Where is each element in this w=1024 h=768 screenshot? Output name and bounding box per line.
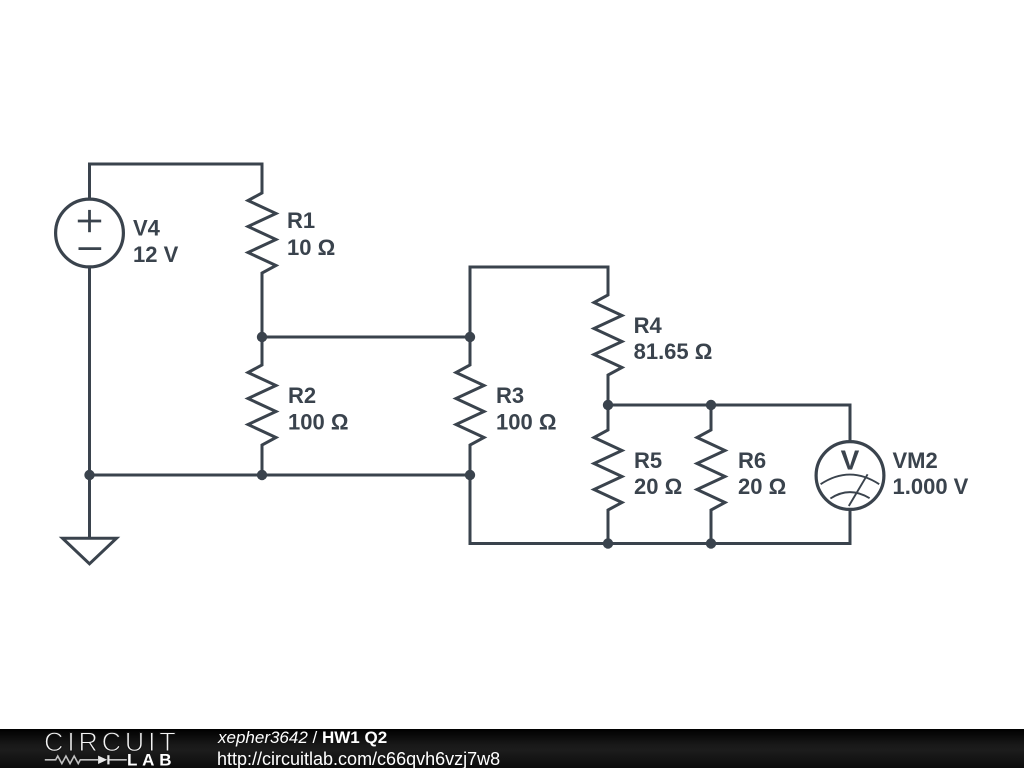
svg-text:81.65 Ω: 81.65 Ω	[634, 339, 713, 364]
svg-text:1.000 V: 1.000 V	[893, 474, 969, 499]
svg-text:R1: R1	[287, 208, 315, 233]
svg-text:10 Ω: 10 Ω	[287, 235, 335, 260]
svg-text:12 V: 12 V	[133, 242, 179, 267]
svg-text:V4: V4	[133, 216, 161, 241]
svg-text:R4: R4	[634, 313, 663, 338]
svg-text:100 Ω: 100 Ω	[288, 410, 348, 435]
svg-text:20 Ω: 20 Ω	[634, 474, 682, 499]
svg-text:20 Ω: 20 Ω	[738, 474, 786, 499]
svg-text:R2: R2	[288, 383, 316, 408]
svg-text:V: V	[841, 444, 860, 475]
svg-text:VM2: VM2	[893, 448, 938, 473]
svg-text:R5: R5	[634, 448, 662, 473]
svg-text:R6: R6	[738, 448, 766, 473]
svg-text:LAB: LAB	[127, 751, 176, 768]
svg-text:100 Ω: 100 Ω	[496, 410, 556, 435]
svg-text:R3: R3	[496, 383, 524, 408]
